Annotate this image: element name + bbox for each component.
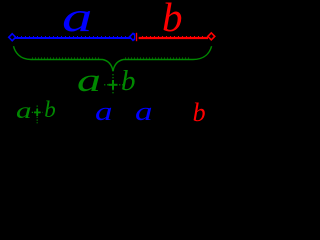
brace a+b (green curly brace under the segment) bbox=[14, 46, 212, 72]
label a (bottom, blue, first) bbox=[95, 99, 113, 125]
point B (junction: blue diamond clipped, red tick) bbox=[130, 31, 139, 43]
label a (top, blue) bbox=[62, 0, 92, 39]
label b of big a+b (green) bbox=[121, 67, 136, 96]
segment a (blue line) bbox=[12, 37, 135, 39]
label a of big a+b (green) bbox=[77, 65, 101, 98]
plus sign of big label a+b (green cross with dashed arms) bbox=[104, 74, 123, 94]
plus sign of small label a+b (green cross with dotted tail) bbox=[32, 106, 43, 124]
label b (bottom, red) bbox=[193, 100, 206, 126]
label b (top, red) bbox=[162, 0, 183, 38]
segment b (red line) bbox=[138, 37, 209, 39]
point C (open red diamond, right endpoint) bbox=[208, 33, 215, 40]
point A (open blue diamond, left endpoint) bbox=[9, 34, 16, 41]
label b of small a+b (green, bottom-left) bbox=[44, 98, 56, 121]
label a of small a+b (green, bottom-left) bbox=[16, 99, 32, 122]
label a (bottom, blue, second) bbox=[135, 99, 153, 125]
